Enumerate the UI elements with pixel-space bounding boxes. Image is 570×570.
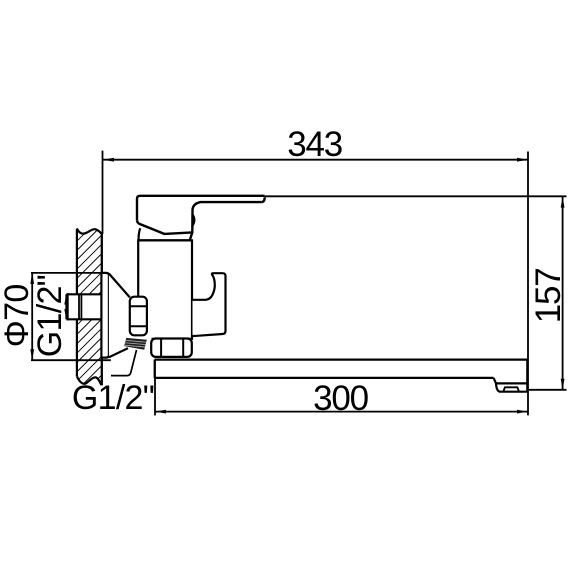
dimension 157 — [265, 196, 568, 389]
leader line for G1/2 label — [111, 350, 137, 376]
dimension 343 — [103, 125, 529, 416]
escutcheon flange plate on wall — [101, 273, 109, 358]
svg-text:157: 157 — [529, 269, 568, 324]
dimension D70 — [0, 273, 111, 360]
dimension 300 — [155, 360, 528, 419]
handle cap (cartridge collar) — [139, 228, 191, 240]
svg-text:343: 343 — [287, 125, 342, 164]
svg-text:G1/2": G1/2" — [31, 275, 69, 357]
eccentric cone — [109, 274, 144, 358]
shower hook on body — [193, 273, 226, 336]
spout aerator end — [494, 360, 528, 392]
svg-text:G1/2": G1/2" — [72, 379, 154, 417]
faucet body — [138, 240, 192, 338]
svg-text:300: 300 — [313, 379, 369, 418]
handle lever and base — [137, 196, 265, 240]
wall (hatched section) — [77, 229, 102, 386]
wall pipe socket G1/2 — [66, 293, 100, 320]
spout tube — [155, 360, 528, 378]
G1/2 thread block (shower outlet thread) — [124, 338, 147, 350]
eccentric nut — [130, 297, 147, 336]
bottom hex nut (spout nut) — [151, 339, 192, 357]
G1/2 socket dimension arrows — [64, 294, 68, 319]
